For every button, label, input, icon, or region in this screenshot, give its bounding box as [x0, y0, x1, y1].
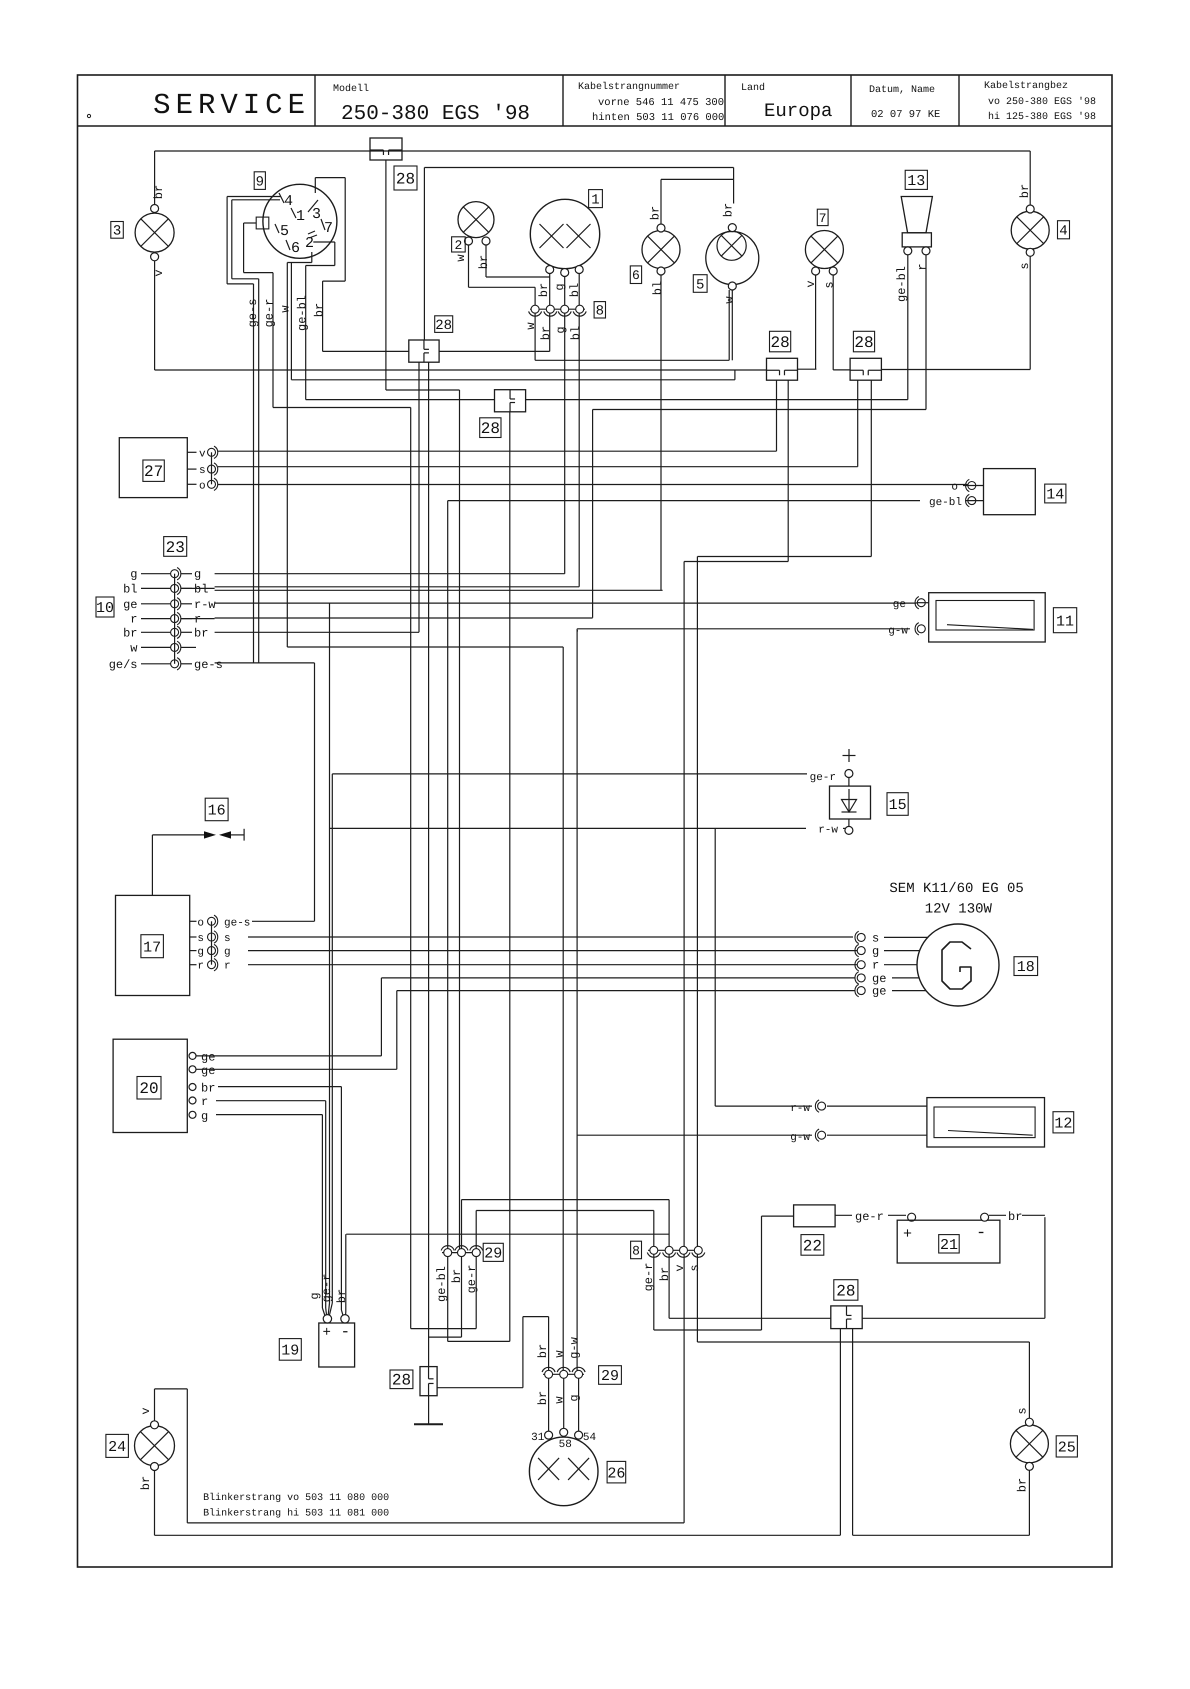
- svg-text:Datum, Name: Datum, Name: [869, 85, 935, 96]
- svg-text:17: 17: [143, 939, 161, 956]
- svg-text:22: 22: [803, 1237, 822, 1255]
- svg-text:s: s: [823, 281, 837, 288]
- svg-text:ge-r: ge-r: [263, 299, 277, 328]
- svg-text:r: r: [201, 1095, 208, 1109]
- svg-text:g-w: g-w: [790, 1132, 810, 1144]
- svg-text:br: br: [658, 1267, 672, 1281]
- svg-text:6: 6: [632, 268, 640, 283]
- svg-text:g: g: [568, 1394, 582, 1401]
- svg-text:ge-r: ge-r: [465, 1265, 479, 1294]
- svg-text:ge-bl: ge-bl: [296, 295, 310, 331]
- svg-text:02 07 97 KE: 02 07 97 KE: [871, 109, 940, 121]
- svg-text:bl: bl: [194, 582, 208, 596]
- svg-text:r: r: [916, 263, 930, 270]
- svg-text:g: g: [130, 568, 137, 582]
- svg-text:23: 23: [166, 539, 185, 557]
- svg-text:28: 28: [854, 334, 873, 352]
- svg-text:28: 28: [392, 1372, 411, 1390]
- svg-text:w: w: [454, 254, 468, 262]
- svg-text:Kabelstrangnummer: Kabelstrangnummer: [578, 81, 680, 93]
- svg-text:11: 11: [1056, 613, 1074, 630]
- svg-text:Blinkerstrang hi 503 11 081: Blinkerstrang hi 503 11 081 000: [203, 1508, 389, 1520]
- svg-text:g: g: [194, 568, 201, 582]
- svg-text:s: s: [199, 465, 206, 477]
- svg-text:28: 28: [770, 334, 789, 352]
- svg-text:g-w: g-w: [888, 626, 908, 638]
- svg-text:br: br: [313, 303, 327, 317]
- svg-text:21: 21: [940, 1237, 958, 1254]
- svg-text:br: br: [123, 626, 137, 640]
- svg-text:v: v: [804, 280, 818, 287]
- svg-text:s: s: [1016, 1407, 1030, 1414]
- svg-text:Kabelstrangbez: Kabelstrangbez: [984, 80, 1068, 92]
- svg-text:vorne 546 11 475 300: vorne 546 11 475 300: [598, 97, 724, 109]
- svg-text:29: 29: [601, 1368, 619, 1385]
- svg-text:g: g: [201, 1109, 208, 1123]
- svg-text:s: s: [688, 1264, 702, 1271]
- svg-text:9: 9: [256, 174, 264, 190]
- svg-text:7: 7: [819, 211, 827, 226]
- svg-text:hi 125-380 EGS '98: hi 125-380 EGS '98: [988, 111, 1096, 123]
- svg-text:g-w: g-w: [568, 1336, 582, 1358]
- svg-text:br: br: [201, 1082, 215, 1096]
- svg-text:ge: ge: [893, 599, 906, 611]
- svg-text:g: g: [197, 947, 204, 959]
- svg-text:16: 16: [208, 803, 226, 820]
- svg-text:s: s: [197, 933, 204, 945]
- svg-text:15: 15: [889, 797, 907, 814]
- svg-text:r-w: r-w: [790, 1103, 810, 1115]
- svg-text:13: 13: [907, 173, 925, 190]
- svg-text:ge: ge: [201, 1050, 215, 1064]
- svg-text:12: 12: [1054, 1115, 1072, 1132]
- svg-text:g: g: [872, 945, 879, 959]
- svg-text:o: o: [199, 480, 206, 492]
- svg-text:2: 2: [454, 238, 462, 253]
- svg-text:Blinkerstrang vo 503 11 080: Blinkerstrang vo 503 11 080 000: [203, 1492, 389, 1504]
- svg-text:28: 28: [836, 1282, 855, 1300]
- svg-text:br: br: [1008, 1210, 1022, 1224]
- svg-text:ge: ge: [123, 598, 137, 612]
- svg-text:g: g: [224, 947, 231, 959]
- svg-text:br: br: [477, 255, 491, 269]
- svg-text:r: r: [197, 961, 204, 973]
- svg-text:12V 130W: 12V 130W: [925, 902, 993, 918]
- svg-text:br: br: [1016, 1478, 1030, 1492]
- svg-text:v: v: [673, 1264, 687, 1271]
- svg-text:Land: Land: [741, 82, 765, 94]
- svg-text:r-w: r-w: [194, 598, 216, 612]
- svg-text:SERVICE: SERVICE: [153, 89, 310, 122]
- svg-text:29: 29: [484, 1245, 502, 1262]
- svg-text:w: w: [130, 641, 138, 655]
- svg-text:br: br: [194, 626, 208, 640]
- svg-text:br: br: [1018, 184, 1032, 198]
- svg-text:bl: bl: [651, 281, 665, 295]
- svg-text:ge/s: ge/s: [109, 658, 138, 672]
- svg-text:7: 7: [324, 220, 333, 237]
- svg-text:r: r: [224, 961, 231, 973]
- svg-text:ge-s: ge-s: [194, 658, 223, 672]
- svg-text:r: r: [872, 959, 879, 973]
- svg-text:4: 4: [1059, 224, 1067, 240]
- svg-text:g: g: [554, 326, 568, 333]
- svg-text:8: 8: [596, 304, 604, 320]
- svg-text:br: br: [536, 1391, 550, 1405]
- svg-text:ge: ge: [201, 1064, 215, 1078]
- svg-text:g: g: [553, 283, 567, 290]
- svg-text:ge: ge: [872, 985, 886, 999]
- svg-text:250-380 EGS '98: 250-380 EGS '98: [341, 103, 530, 126]
- svg-text:bl: bl: [123, 582, 137, 596]
- svg-text:20: 20: [139, 1080, 158, 1098]
- svg-text:1: 1: [296, 208, 305, 225]
- svg-text:hinten 503 11 076 000: hinten 503 11 076 000: [592, 112, 724, 124]
- svg-text:r: r: [194, 613, 201, 627]
- svg-text:25: 25: [1058, 1440, 1076, 1457]
- svg-text:28: 28: [435, 318, 452, 334]
- svg-text:br: br: [139, 1476, 153, 1490]
- svg-text:19: 19: [281, 1343, 299, 1360]
- svg-text:14: 14: [1046, 487, 1064, 504]
- svg-text:ge-r: ge-r: [320, 1274, 334, 1303]
- svg-text:r: r: [130, 613, 137, 627]
- svg-text:ge-r: ge-r: [855, 1210, 884, 1224]
- svg-text:28: 28: [481, 420, 500, 438]
- svg-text:Modell: Modell: [333, 83, 369, 95]
- svg-text:br: br: [539, 326, 553, 340]
- svg-text:bl: bl: [568, 283, 582, 297]
- svg-text:w: w: [553, 1396, 567, 1404]
- svg-text:br: br: [335, 1289, 349, 1303]
- svg-text:o: o: [951, 482, 958, 494]
- svg-text:3: 3: [312, 206, 321, 223]
- svg-text:ge-bl: ge-bl: [929, 497, 962, 509]
- svg-text:18: 18: [1017, 959, 1035, 976]
- svg-text:-: -: [976, 1224, 986, 1243]
- svg-text:6: 6: [291, 240, 300, 257]
- svg-text:27: 27: [144, 463, 163, 481]
- svg-text:s: s: [872, 931, 879, 945]
- svg-text:54: 54: [583, 1432, 597, 1444]
- svg-text:s: s: [224, 933, 231, 945]
- svg-text:8: 8: [632, 1243, 640, 1258]
- svg-text:w: w: [279, 305, 293, 313]
- svg-text:58: 58: [559, 1439, 572, 1451]
- svg-text:28: 28: [396, 170, 415, 188]
- svg-text:ge-s: ge-s: [224, 917, 250, 929]
- svg-text:+: +: [323, 1325, 331, 1341]
- svg-text:vo 250-380 EGS '98: vo 250-380 EGS '98: [988, 96, 1096, 108]
- svg-text:br: br: [649, 206, 663, 220]
- svg-text:ge-r: ge-r: [810, 772, 836, 784]
- svg-text:r-w: r-w: [818, 825, 838, 837]
- svg-text:4: 4: [284, 193, 293, 210]
- svg-text:ge-s: ge-s: [246, 299, 260, 328]
- svg-text:ge-bl: ge-bl: [435, 1266, 449, 1302]
- svg-text:w: w: [553, 1350, 567, 1358]
- svg-text:10: 10: [96, 600, 114, 617]
- svg-text:SEM K11/60 EG 05: SEM K11/60 EG 05: [889, 881, 1023, 897]
- svg-text:Europa: Europa: [764, 100, 832, 122]
- svg-text:o: o: [197, 917, 204, 929]
- svg-text:br: br: [536, 1344, 550, 1358]
- svg-text:31: 31: [531, 1432, 545, 1444]
- svg-text:v: v: [139, 1407, 153, 1414]
- svg-text:5: 5: [280, 223, 289, 240]
- svg-text:w: w: [524, 322, 538, 330]
- svg-text:br: br: [152, 185, 166, 199]
- svg-text:ge-bl: ge-bl: [895, 266, 909, 302]
- svg-text:br: br: [722, 203, 736, 217]
- svg-text:1: 1: [591, 192, 599, 208]
- svg-text:5: 5: [696, 277, 704, 293]
- svg-text:bl: bl: [569, 326, 583, 340]
- svg-text:br: br: [537, 283, 551, 297]
- svg-text:3: 3: [113, 224, 121, 240]
- svg-text:24: 24: [108, 1439, 126, 1456]
- svg-text:26: 26: [607, 1465, 625, 1482]
- svg-text:v: v: [199, 448, 206, 460]
- svg-text:-: -: [341, 1323, 351, 1341]
- svg-text:+: +: [903, 1226, 912, 1243]
